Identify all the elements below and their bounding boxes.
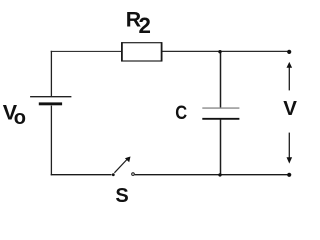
wire bottom left segment <box>51 174 112 176</box>
wire left vertical lower <box>50 106 52 176</box>
resistor R2 <box>122 43 162 61</box>
resistor R2 right edge <box>161 42 163 61</box>
battery V0 top plate (long thin, +) <box>30 96 71 98</box>
V arrow up (head) <box>287 62 293 68</box>
svg-text:2: 2 <box>139 13 151 38</box>
capacitor C top plate <box>202 107 239 109</box>
svg-text:S: S <box>115 185 128 207</box>
V arrow down (head) <box>287 157 293 163</box>
switch S left terminal <box>112 173 115 176</box>
svg-text:V: V <box>283 97 297 120</box>
wire capacitor branch upper <box>220 51 222 108</box>
wire capacitor branch lower <box>220 119 222 175</box>
switch S right terminal <box>132 173 135 176</box>
battery V0 bottom plate (short thick, -) <box>39 102 62 105</box>
V arrow down (line) <box>288 133 290 158</box>
V arrow up (line) <box>288 67 290 90</box>
node bottom right <box>287 173 291 177</box>
resistor R2 left edge <box>121 42 123 61</box>
capacitor C bottom plate <box>202 118 239 120</box>
wire left vertical upper <box>50 51 52 96</box>
switch S blade arrowhead <box>125 157 131 163</box>
switch S blade <box>114 160 126 173</box>
wire top right segment <box>162 50 290 52</box>
svg-text:o: o <box>14 107 26 129</box>
node top right <box>287 50 291 54</box>
node junction top (capacitor/top wire) <box>218 50 221 53</box>
svg-text:C: C <box>175 102 187 124</box>
wire top left segment <box>51 50 122 52</box>
node junction bottom (capacitor/bottom wire) <box>218 173 221 176</box>
wire bottom right segment <box>135 174 290 176</box>
